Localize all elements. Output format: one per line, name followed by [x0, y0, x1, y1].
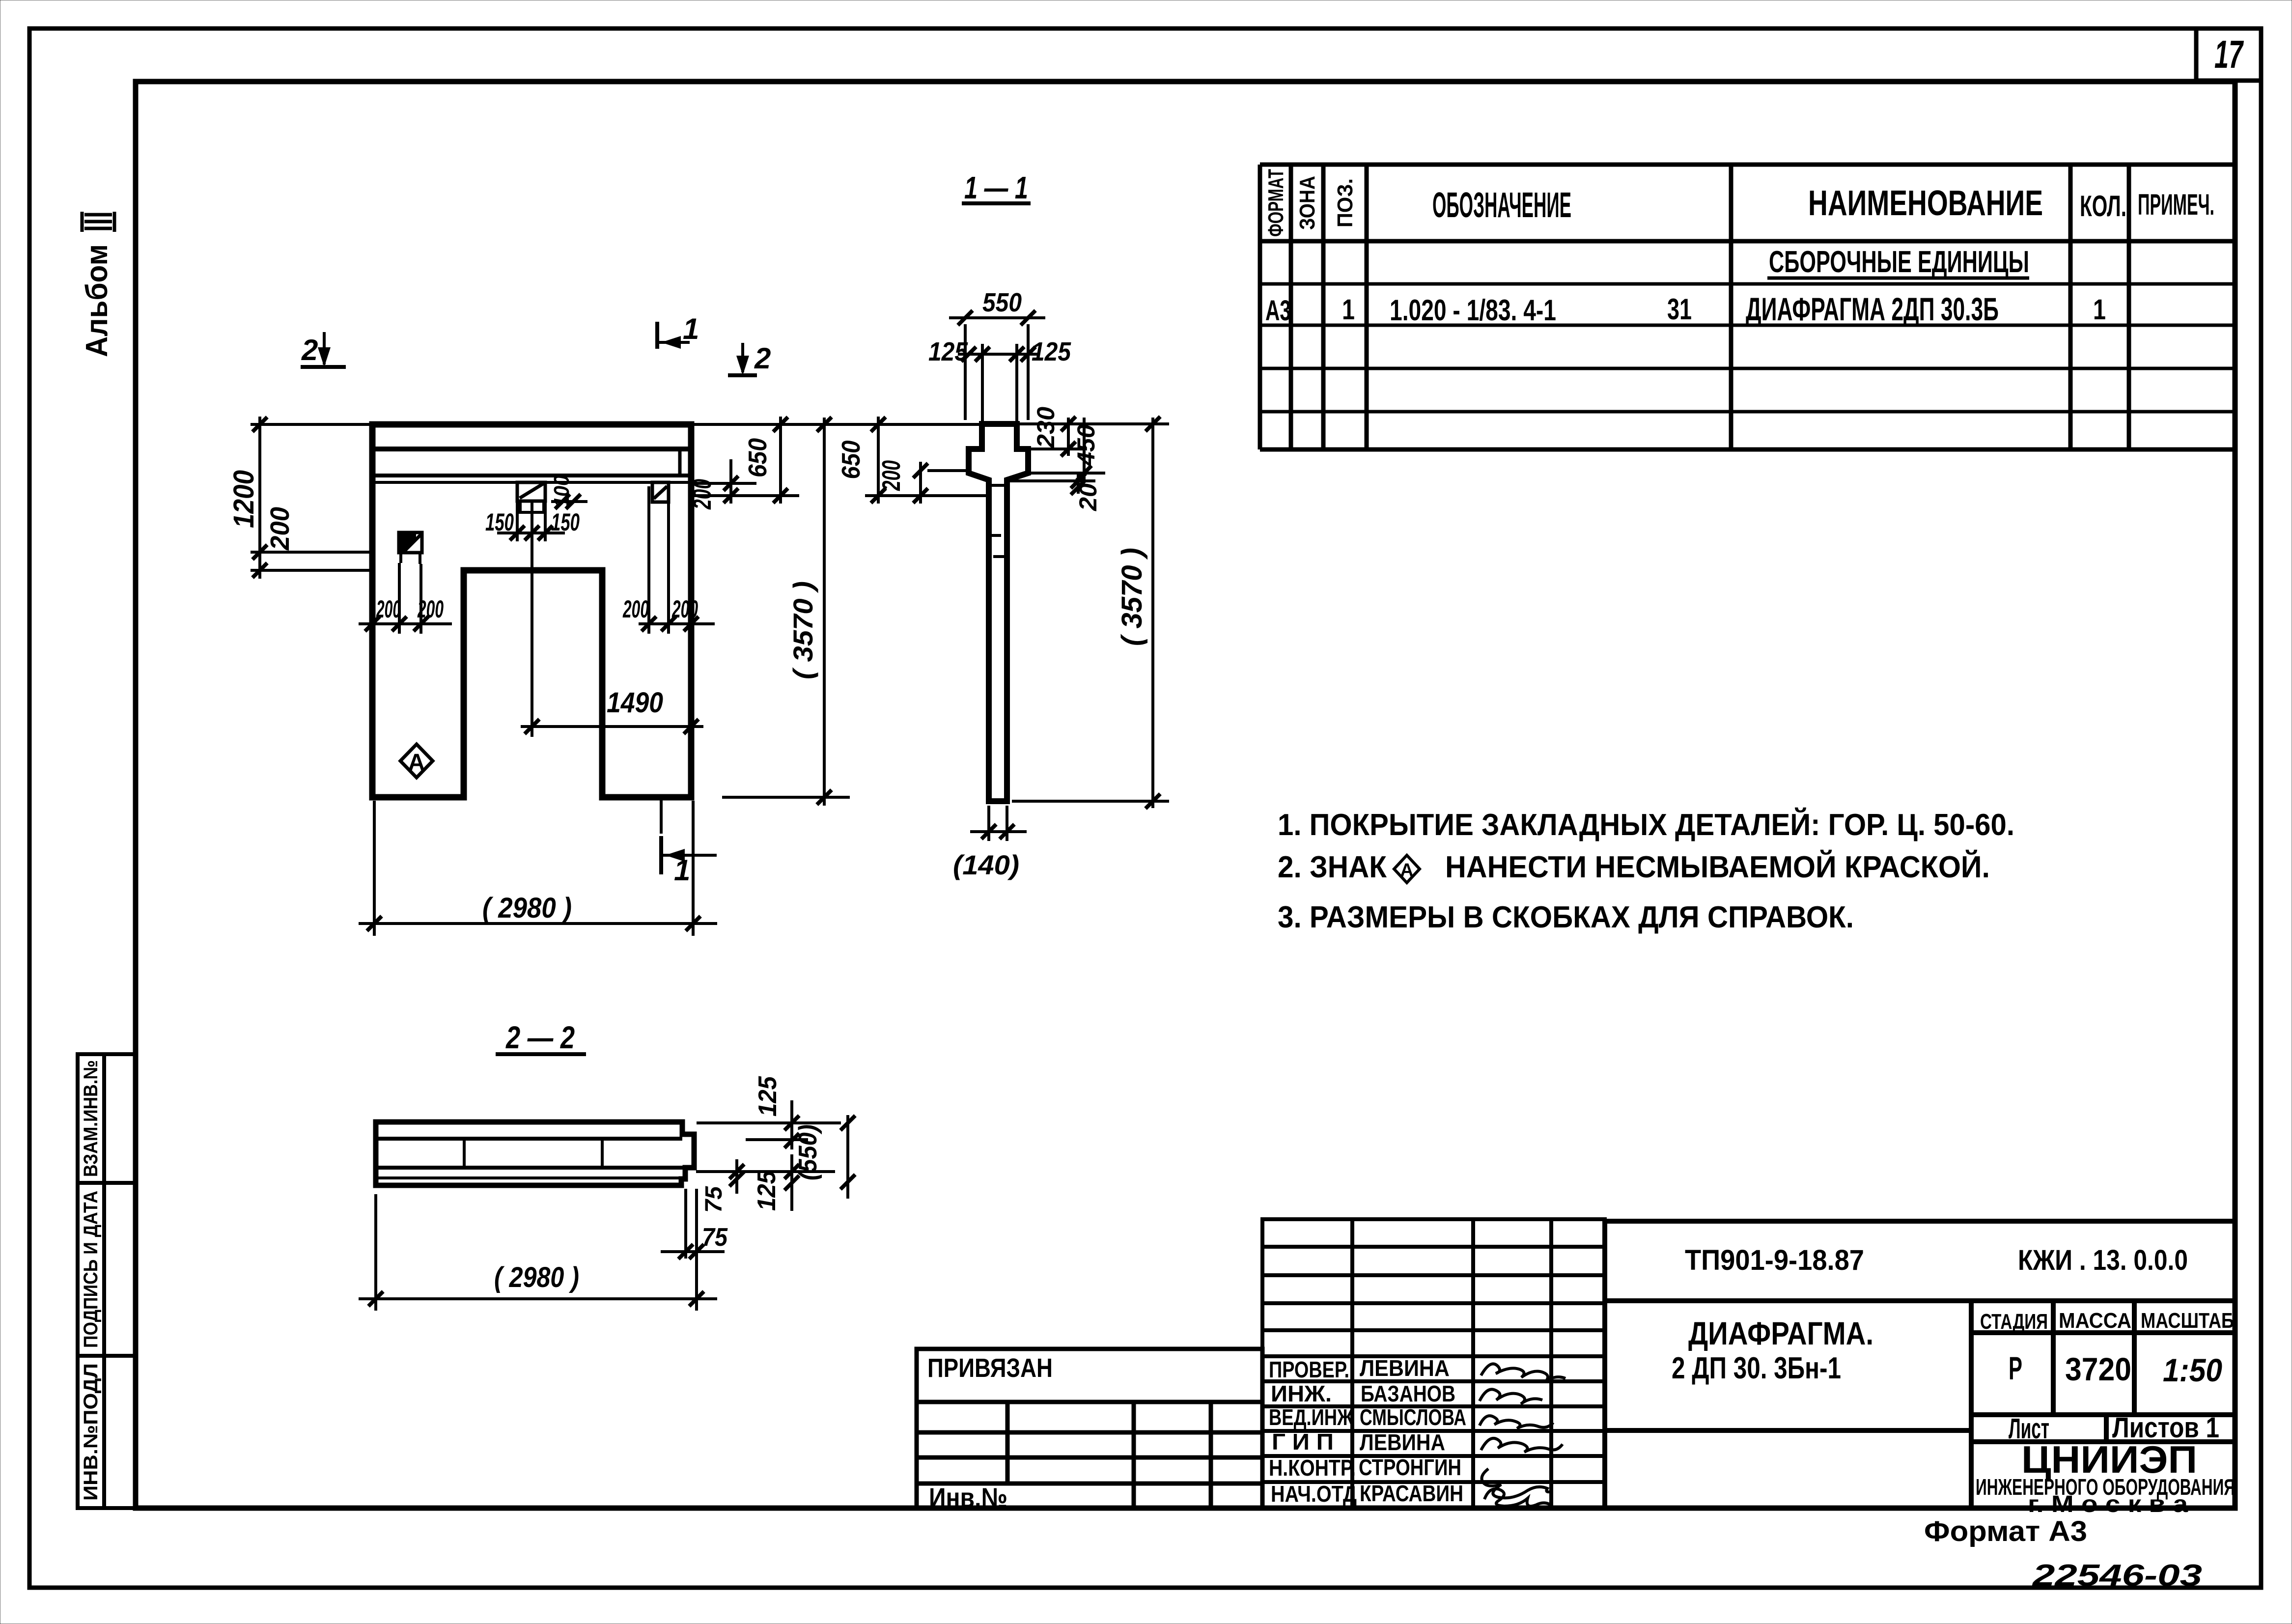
svg-text:ПРИВЯЗАН: ПРИВЯЗАН: [927, 1353, 1053, 1383]
svg-text:МАСШТАБ: МАСШТАБ: [2141, 1309, 2234, 1333]
svg-text:2 — 2: 2 — 2: [505, 1020, 575, 1055]
svg-text:1:50: 1:50: [2163, 1352, 2222, 1388]
svg-text:1. ПОКРЫТИЕ ЗАКЛАДНЫХ ДЕТАЛЕЙ:: 1. ПОКРЫТИЕ ЗАКЛАДНЫХ ДЕТАЛЕЙ: ГОР. Ц. 5…: [1278, 808, 2014, 842]
svg-text:ПРОВЕР.: ПРОВЕР.: [1269, 1357, 1349, 1382]
svg-text:125: 125: [928, 337, 968, 366]
svg-text:125: 125: [753, 1170, 781, 1211]
svg-text:125: 125: [1032, 337, 1071, 366]
svg-text:150: 150: [551, 508, 580, 536]
svg-text:КЖИ . 13. 0.0.0: КЖИ . 13. 0.0.0: [2018, 1244, 2188, 1276]
svg-text:Р: Р: [2009, 1350, 2022, 1386]
svg-text:Инв.№: Инв.№: [929, 1482, 1007, 1513]
svg-text:1 — 1: 1 — 1: [964, 170, 1028, 205]
svg-text:КРАСАВИН: КРАСАВИН: [1360, 1481, 1463, 1506]
svg-text:НАЧ.ОТД: НАЧ.ОТД: [1271, 1481, 1357, 1507]
svg-text:ОБОЗНАЧЕНИЕ: ОБОЗНАЧЕНИЕ: [1432, 186, 1571, 225]
svg-text:1: 1: [1342, 294, 1355, 326]
svg-text:22546-03: 22546-03: [2032, 1559, 2202, 1593]
svg-text:ФОРМАТ: ФОРМАТ: [1264, 169, 1288, 237]
svg-text:125: 125: [754, 1076, 782, 1117]
svg-text:Альбом: Альбом: [80, 244, 114, 357]
svg-text:2: 2: [301, 334, 318, 366]
svg-text:230: 230: [1032, 407, 1060, 448]
svg-text:ПОЗ.: ПОЗ.: [1333, 178, 1357, 227]
svg-text:2 ДП 30. 3Бн-1: 2 ДП 30. 3Бн-1: [1672, 1351, 1841, 1385]
svg-text:НАНЕСТИ НЕСМЫВАЕМОЙ КРАСКОЙ.: НАНЕСТИ НЕСМЫВАЕМОЙ КРАСКОЙ.: [1445, 850, 1990, 884]
svg-text:1.020 - 1/83. 4-1: 1.020 - 1/83. 4-1: [1390, 294, 1556, 327]
svg-text:2: 2: [754, 342, 771, 375]
svg-text:СБОРОЧНЫЕ ЕДИНИЦЫ: СБОРОЧНЫЕ ЕДИНИЦЫ: [1769, 245, 2029, 279]
svg-text:ВЕД.ИНЖ: ВЕД.ИНЖ: [1269, 1404, 1353, 1430]
svg-text:200: 200: [877, 460, 906, 491]
svg-text:ВЗАМ.ИНВ.№: ВЗАМ.ИНВ.№: [80, 1060, 102, 1177]
svg-text:СТАДИЯ: СТАДИЯ: [1980, 1310, 2048, 1334]
svg-text:ИНВ.№ПОДЛ: ИНВ.№ПОДЛ: [80, 1363, 102, 1501]
svg-text:А: А: [1400, 860, 1413, 881]
svg-text:СТРОНГИН: СТРОНГИН: [1359, 1455, 1461, 1480]
svg-text:(550): (550): [794, 1124, 822, 1180]
svg-text:ЛЕВИНА: ЛЕВИНА: [1360, 1355, 1450, 1381]
svg-text:200: 200: [265, 507, 295, 551]
svg-text:НАИМЕНОВАНИЕ: НАИМЕНОВАНИЕ: [1808, 184, 2043, 223]
svg-text:200: 200: [622, 595, 649, 623]
svg-text:ИНЖ.: ИНЖ.: [1271, 1381, 1332, 1406]
svg-text:3720: 3720: [2065, 1351, 2131, 1387]
svg-text:МАССА: МАССА: [2059, 1309, 2131, 1333]
svg-text:ДИАФРАГМА 2ДП 30.3Б: ДИАФРАГМА 2ДП 30.3Б: [1746, 291, 1999, 327]
svg-text:Н.КОНТР.: Н.КОНТР.: [1269, 1455, 1356, 1481]
svg-text:200: 200: [688, 479, 717, 510]
svg-text:17: 17: [2214, 32, 2244, 76]
svg-text:А: А: [408, 750, 425, 776]
svg-text:200: 200: [671, 595, 698, 623]
svg-text:100: 100: [550, 475, 574, 507]
svg-text:ПОДПИСЬ И ДАТА: ПОДПИСЬ И ДАТА: [80, 1191, 102, 1348]
svg-text:А3: А3: [1265, 295, 1291, 327]
svg-text:Г И П: Г И П: [1272, 1429, 1334, 1455]
svg-text:75: 75: [702, 1223, 728, 1252]
svg-text:200: 200: [376, 595, 401, 623]
svg-text:г. М о с к в а: г. М о с к в а: [2028, 1491, 2188, 1517]
svg-text:650: 650: [837, 440, 866, 479]
svg-text:450: 450: [1072, 424, 1100, 466]
svg-text:1: 1: [683, 312, 699, 345]
svg-text:200: 200: [417, 595, 444, 623]
svg-text:СМЫСЛОВА: СМЫСЛОВА: [1360, 1404, 1466, 1430]
svg-text:1200: 1200: [228, 470, 260, 528]
svg-text:75: 75: [701, 1186, 727, 1213]
svg-text:150: 150: [485, 508, 514, 536]
svg-text:( 3570 ): ( 3570 ): [787, 581, 818, 679]
svg-text:31: 31: [1667, 293, 1692, 326]
svg-text:550: 550: [982, 288, 1022, 317]
svg-text:( 3570 ): ( 3570 ): [1116, 548, 1148, 646]
svg-text:КОЛ.: КОЛ.: [2080, 190, 2126, 223]
svg-text:БАЗАНОВ: БАЗАНОВ: [1361, 1381, 1455, 1406]
svg-text:2. ЗНАК: 2. ЗНАК: [1278, 850, 1387, 884]
svg-text:1490: 1490: [607, 687, 663, 719]
svg-text:1: 1: [2093, 294, 2106, 326]
svg-text:3. РАЗМЕРЫ В СКОБКАХ ДЛЯ СПРАВ: 3. РАЗМЕРЫ В СКОБКАХ ДЛЯ СПРАВОК.: [1278, 900, 1854, 934]
svg-text:ПРИМЕЧ.: ПРИМЕЧ.: [2138, 188, 2214, 221]
svg-text:ДИАФРАГМА.: ДИАФРАГМА.: [1688, 1315, 1873, 1351]
svg-text:( 2980 ): ( 2980 ): [482, 892, 572, 924]
svg-text:Формат А3: Формат А3: [1924, 1515, 2087, 1547]
svg-text:ЗОНА: ЗОНА: [1295, 176, 1319, 230]
svg-text:( 2980 ): ( 2980 ): [494, 1261, 579, 1293]
svg-text:ЛЕВИНА: ЛЕВИНА: [1360, 1429, 1445, 1455]
svg-text:650: 650: [744, 438, 772, 477]
svg-text:20: 20: [1074, 483, 1102, 511]
svg-text:(140): (140): [953, 849, 1019, 880]
svg-text:ТП901-9-18.87: ТП901-9-18.87: [1685, 1244, 1864, 1276]
svg-text:1: 1: [674, 854, 690, 887]
